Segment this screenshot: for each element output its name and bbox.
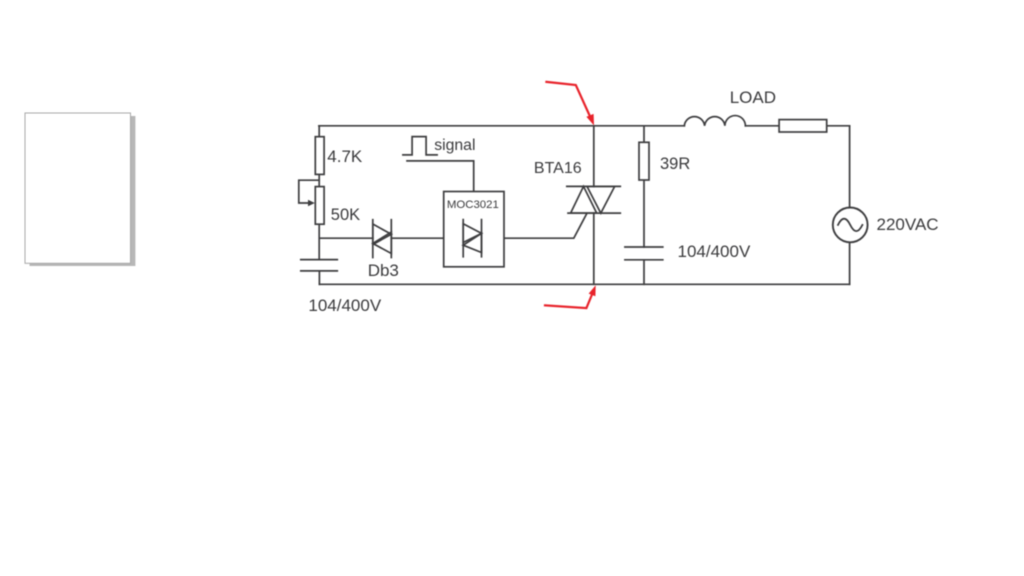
red arrow bottom: [545, 285, 596, 308]
AC source 220VAC: [833, 208, 868, 243]
optocoupler inner diac: [463, 220, 481, 257]
svg-text:Db3: Db3: [368, 261, 399, 280]
svg-text:4.7K: 4.7K: [327, 147, 363, 166]
svg-text:BTA16: BTA16: [534, 160, 582, 177]
svg-text:signal: signal: [434, 137, 475, 154]
red arrow top: [546, 82, 594, 126]
wire triac vertical: [593, 126, 595, 284]
wire left vertical: [318, 126, 320, 260]
svg-text:104/400V: 104/400V: [308, 296, 381, 315]
svg-text:LOAD: LOAD: [730, 88, 776, 107]
wire mid (gate chain): [319, 213, 587, 238]
resistor LOAD box: [779, 120, 827, 132]
capacitor C2 104/400V: [625, 247, 663, 260]
optocoupler U1 MOC3021 box: [444, 192, 504, 267]
wire top rail: [319, 125, 850, 127]
svg-text:MOC3021: MOC3021: [447, 199, 499, 211]
svg-text:104/400V: 104/400V: [678, 242, 751, 261]
wire bottom rail: [319, 283, 849, 285]
potentiometer wiper arrow: [299, 180, 319, 203]
svg-text:220VAC: 220VAC: [877, 215, 939, 234]
inductor LOAD: [684, 116, 745, 126]
wire right vertical: [849, 126, 851, 284]
wire signal: [407, 161, 474, 192]
potentiometer 50K body: [315, 187, 324, 225]
wire 39R branch: [643, 126, 645, 284]
resistor 39R: [639, 142, 649, 180]
diac Db3: [373, 220, 392, 258]
paper sheet: [25, 113, 131, 263]
svg-text:39R: 39R: [660, 155, 690, 173]
svg-text:50K: 50K: [331, 206, 360, 224]
paper shadow: [30, 116, 136, 266]
capacitor C1 104/400V: [301, 260, 338, 285]
signal pulse symbol: [403, 137, 437, 155]
resistor 4.7K: [315, 137, 324, 175]
triac BTA16: [567, 186, 621, 213]
